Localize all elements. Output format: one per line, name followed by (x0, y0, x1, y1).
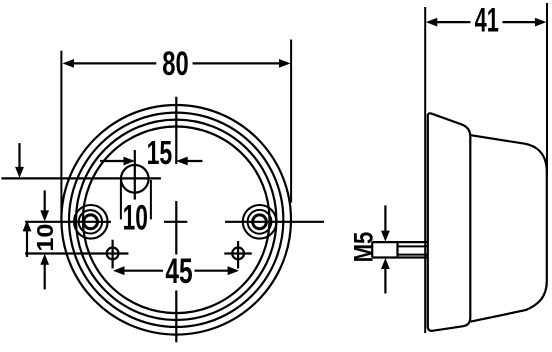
svg-text:10: 10 (123, 199, 148, 238)
svg-text:M5: M5 (350, 231, 380, 262)
svg-text:10: 10 (33, 224, 59, 252)
svg-text:41: 41 (475, 2, 499, 40)
svg-text:45: 45 (165, 253, 192, 291)
svg-text:15: 15 (147, 135, 173, 172)
svg-text:80: 80 (162, 45, 188, 83)
